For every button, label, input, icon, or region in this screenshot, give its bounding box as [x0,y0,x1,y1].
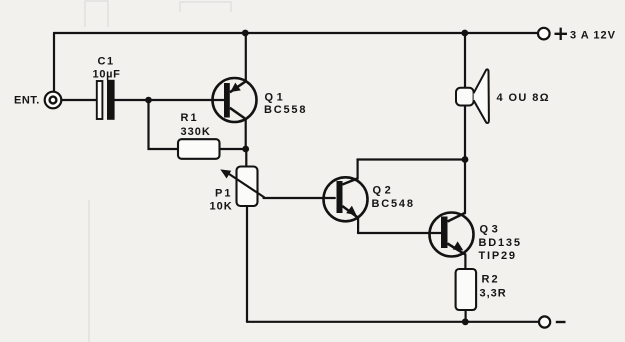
capacitor C1 [97,80,115,120]
svg-text:Q1: Q1 [265,92,287,104]
wiper arrow of P1 [220,169,231,178]
svg-text:10K: 10K [210,201,233,213]
svg-text:3 A 12V: 3 A 12V [570,30,616,42]
wire R2 bottom to bottom rail [465,310,467,322]
wire top rail [54,32,538,34]
wire junction A down to R1 level [149,100,179,149]
terminal - supply [539,316,550,327]
node A junction C1/R1/Q1 base [145,97,152,104]
wire speaker top from rail [464,33,466,88]
wire bottom rail [247,321,539,323]
terminal + supply [538,28,550,40]
svg-text:R2: R2 [482,274,500,286]
svg-text:C1: C1 [98,56,115,68]
svg-text:10µF: 10µF [93,69,121,81]
wire input to C1 [62,99,97,101]
node C junction Q2 collector/speaker/Q3 collector [462,156,469,163]
wire R1 right to node B [220,148,246,150]
speaker LS1 [456,69,489,123]
scan artifact faint box top [85,1,231,342]
transistor Q3 (NPN BD135/TIP29) [430,213,474,257]
wire C1 to Q1 base [115,99,224,101]
svg-text:BC548: BC548 [372,198,415,210]
svg-text:3,3R: 3,3R [480,288,507,300]
wire Q2 emitter down [357,218,359,233]
svg-text:ENT.: ENT. [14,95,40,107]
wire Q1 emitter up to top rail [245,33,247,81]
input jack ENT. [45,92,62,109]
node junction R2/bottom rail [462,318,469,325]
wire node B down to P1 [245,149,247,167]
svg-text:4 OU 8Ω: 4 OU 8Ω [497,92,550,104]
wire speaker bottom to node C [464,105,466,160]
resistor R2 [456,269,477,310]
transistor Q2 (NPN BC548) [324,177,368,221]
wire Q2 emitter to Q3 base [358,232,441,234]
node junction top rail at speaker [461,30,468,37]
wire Q2 collector to node C [357,158,465,160]
wire Q1 collector down to node B [245,119,247,149]
transistor Q1 (PNP BC558) [213,78,257,122]
plus sign [555,28,568,40]
node B junction R1/Q1 collector/P1 [242,146,249,153]
wire node C down to Q3 collector [464,160,466,214]
svg-text:BD135: BD135 [479,237,522,249]
minus sign [556,321,566,323]
wire P1 bottom to bottom rail [246,206,248,322]
wire left drop to input [53,33,55,92]
node junction on top rail at Q1 emitter [242,30,249,37]
emitter arrow of Q2 [346,206,356,216]
svg-text:Q2: Q2 [373,185,395,197]
wire Q3 emitter to R2 [464,254,466,269]
svg-text:Q3: Q3 [480,224,502,236]
resistor R1 [178,139,220,159]
svg-text:R1: R1 [181,112,199,124]
potentiometer P1 [220,167,264,207]
wire Q2 collector up [357,160,359,179]
svg-text:330K: 330K [181,126,211,138]
svg-text:P1: P1 [215,188,232,200]
wire P1 wiper to Q2 base [264,197,335,199]
emitter arrow of Q1 [230,83,241,92]
emitter arrow of Q3 [453,241,464,250]
svg-text:BC558: BC558 [264,104,307,116]
svg-text:TIP29: TIP29 [479,250,517,262]
